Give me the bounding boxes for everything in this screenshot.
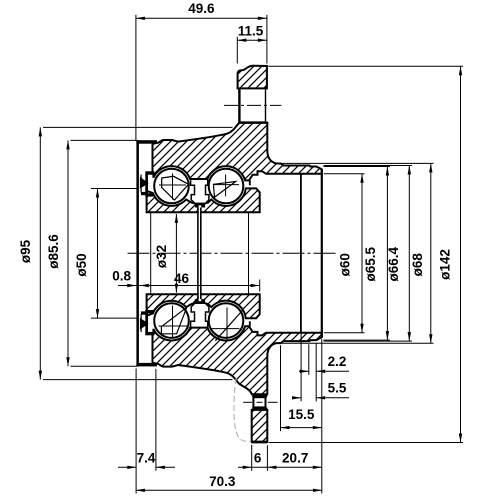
svg-text:ø85.6: ø85.6 (46, 234, 61, 269)
lower inner bearing rings (147, 294, 260, 318)
inner ring abutment joint lines (199, 208, 200, 300)
ball cross lower left (159, 306, 188, 338)
upper bolt hole bottom edge (239, 121, 266, 123)
dimension 2.2 (299, 343, 349, 401)
flange bottom edge (251, 441, 267, 444)
inner ring bore chamfer line left (150, 213, 152, 295)
dimension 15.5 (281, 345, 322, 431)
svg-text:0.8: 0.8 (112, 269, 131, 284)
dimension ø65.5 (324, 167, 391, 341)
inner ring abutment block lower (195, 299, 205, 303)
dimension ø85.6 (46, 140, 137, 366)
upper bolt hole left wall (238, 88, 240, 122)
svg-text:2.2: 2.2 (328, 354, 347, 369)
dimension ø50 (74, 189, 137, 319)
dimension 11.5 (237, 24, 267, 64)
dust shield plate top lip (136, 140, 157, 144)
svg-text:ø142: ø142 (438, 249, 453, 280)
ball bearing lower left (154, 303, 189, 338)
dimension ø68 (276, 163, 434, 343)
ball bearing upper left (154, 169, 189, 204)
snap ring groove lower (249, 321, 251, 326)
dust shield plate web (136, 140, 139, 366)
dimension ø60 (324, 174, 365, 333)
dimension 6 and 20.7 (238, 339, 322, 494)
dimension ø32 (154, 214, 178, 293)
ball cross upper left (159, 174, 186, 200)
wheel stud lower dark band (252, 407, 267, 410)
wheel stud upper dark band (252, 394, 267, 397)
svg-text:5.5: 5.5 (328, 381, 347, 396)
dimension 7.4 (118, 369, 175, 494)
svg-text:ø66.4: ø66.4 (386, 246, 401, 281)
cage bridge upper (191, 179, 209, 203)
phantom flange boss outline (234, 378, 250, 441)
hub flange upper rim above bolt hole (238, 66, 267, 89)
svg-text:ø50: ø50 (74, 253, 89, 276)
dimension ø66.4 (324, 166, 413, 342)
hub flange and outer ring lower section (153, 326, 322, 394)
upper bolt hole right wall (265, 88, 267, 122)
dimension 49.6 (136, 1, 267, 140)
dimension 46 and 0.8 (112, 269, 259, 292)
cage pocket upper right (213, 182, 235, 198)
upper inner bearing rings (147, 188, 260, 212)
dimension 5.5 (292, 334, 349, 402)
ball bearing lower right (209, 303, 244, 338)
hub flange and outer ring upper section (153, 123, 322, 181)
flange lower boss below stud hole (252, 410, 268, 442)
svg-text:15.5: 15.5 (288, 407, 315, 422)
ball bearing upper right (209, 169, 244, 204)
dust shield plate bottom lip (136, 363, 157, 367)
lower bolt hole centerline (243, 401, 252, 403)
svg-text:11.5: 11.5 (238, 24, 264, 39)
svg-text:7.4: 7.4 (137, 451, 156, 466)
seal upper (145, 171, 148, 196)
cage pocket lower left (161, 307, 186, 334)
ball cross lower right (211, 308, 239, 341)
svg-text:ø65.5: ø65.5 (363, 246, 378, 281)
cage pocket upper left (162, 176, 189, 200)
svg-text:ø60: ø60 (337, 253, 352, 276)
bore shoulder line (300, 174, 302, 333)
inner ring bore chamfer line right (248, 213, 250, 295)
dimension ø142 (268, 66, 463, 442)
inner ring abutment block upper (195, 203, 205, 207)
svg-text:ø68: ø68 (410, 253, 425, 277)
svg-text:ø32: ø32 (154, 245, 169, 268)
upper bolt hole centerline (224, 104, 281, 106)
dimension ø95 (18, 127, 232, 379)
cage pocket lower right (215, 310, 242, 340)
svg-text:46: 46 (174, 271, 190, 286)
svg-text:6: 6 (254, 451, 262, 466)
ball cross upper right (213, 175, 239, 197)
svg-text:70.3: 70.3 (209, 474, 236, 489)
spigot end face line (321, 169, 323, 337)
svg-text:ø95: ø95 (18, 239, 33, 263)
wheel stud center tick (257, 401, 263, 403)
cage bridge lower (191, 303, 209, 327)
snap ring groove upper (249, 180, 251, 185)
wheel stud body (253, 397, 265, 407)
svg-text:49.6: 49.6 (188, 1, 215, 16)
main centerline axis (128, 252, 337, 254)
seal lower (145, 310, 148, 335)
dimension 70.3 (136, 474, 322, 492)
svg-text:20.7: 20.7 (282, 451, 308, 466)
